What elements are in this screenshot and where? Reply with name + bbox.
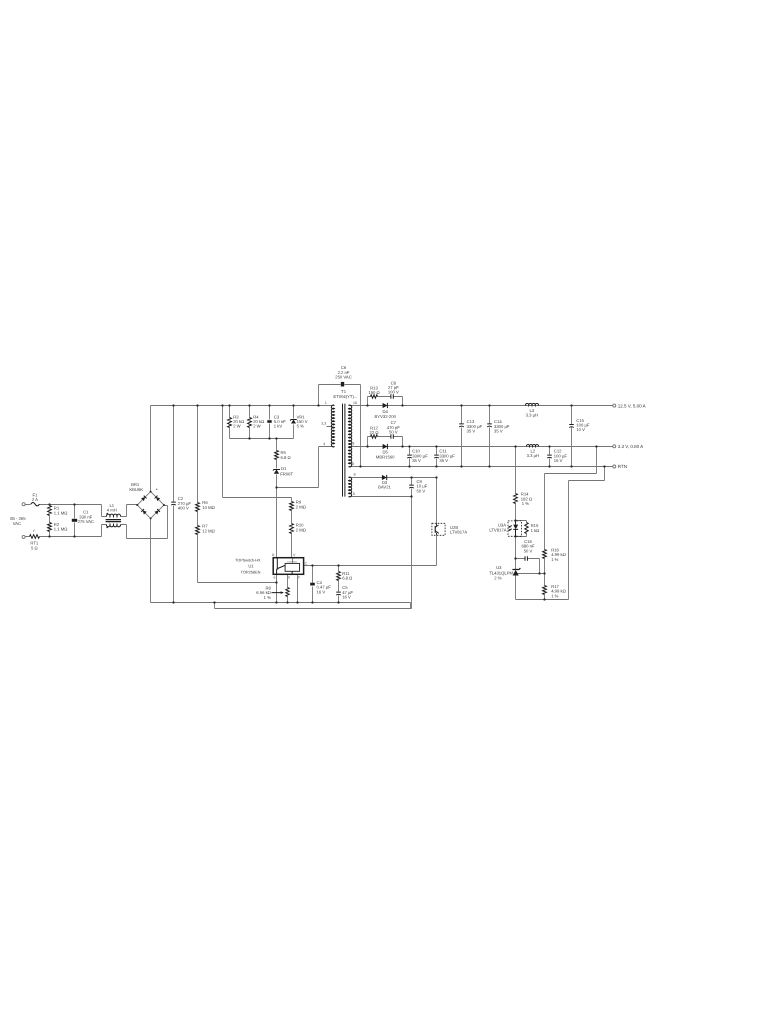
svg-text:16 V: 16 V xyxy=(317,589,326,594)
svg-text:TOP258EN: TOP258EN xyxy=(241,569,261,574)
svg-text:U1: U1 xyxy=(248,563,254,568)
svg-text:10 MΩ: 10 MΩ xyxy=(202,505,214,510)
svg-text:4: 4 xyxy=(323,442,325,446)
svg-text:U3: U3 xyxy=(496,565,502,570)
svg-text:1 %: 1 % xyxy=(551,557,558,562)
svg-text:KBU6K: KBU6K xyxy=(129,487,143,492)
svg-text:LTV817A: LTV817A xyxy=(489,528,506,533)
svg-text:1 %: 1 % xyxy=(522,501,529,506)
svg-text:35 V: 35 V xyxy=(439,458,448,463)
svg-text:35 V: 35 V xyxy=(494,429,503,434)
svg-text:50 V: 50 V xyxy=(417,488,426,493)
svg-text:5 %: 5 % xyxy=(297,424,304,429)
svg-text:1 kΩ: 1 kΩ xyxy=(531,528,540,533)
svg-text:ET004(YT)...: ET004(YT)... xyxy=(333,394,357,399)
svg-text:6.8 Ω: 6.8 Ω xyxy=(281,455,291,460)
svg-text:3.3 µH: 3.3 µH xyxy=(527,453,539,458)
svg-text:3.3 V, 0.80 A: 3.3 V, 0.80 A xyxy=(618,444,643,449)
svg-text:2,3: 2,3 xyxy=(321,421,326,425)
svg-text:MBR1560: MBR1560 xyxy=(376,454,395,459)
svg-text:275 VAC: 275 VAC xyxy=(78,519,94,524)
svg-text:6.8 Ω: 6.8 Ω xyxy=(342,576,352,581)
svg-text:1 %: 1 % xyxy=(264,595,271,600)
svg-text:5 Ω: 5 Ω xyxy=(31,545,38,550)
svg-text:BYV32-200: BYV32-200 xyxy=(374,414,396,419)
svg-text:2 %: 2 % xyxy=(494,575,501,580)
svg-text:1.1 MΩ: 1.1 MΩ xyxy=(54,510,68,515)
svg-text:5: 5 xyxy=(353,492,355,496)
svg-text:35 V: 35 V xyxy=(467,429,476,434)
svg-text:VAC: VAC xyxy=(13,521,21,526)
svg-text:150 Ω: 150 Ω xyxy=(368,390,379,395)
svg-text:16 V: 16 V xyxy=(342,595,351,600)
svg-text:250 VAC: 250 VAC xyxy=(335,375,351,380)
svg-text:50 V: 50 V xyxy=(389,429,398,434)
svg-text:3.3 µH: 3.3 µH xyxy=(526,412,538,417)
svg-text:1.1 MΩ: 1.1 MΩ xyxy=(54,527,68,532)
svg-text:50 V: 50 V xyxy=(524,548,533,553)
svg-text:1: 1 xyxy=(325,401,327,405)
svg-text:400 V: 400 V xyxy=(178,506,189,511)
svg-text:2 MΩ: 2 MΩ xyxy=(296,504,306,509)
svg-text:10: 10 xyxy=(353,401,357,405)
svg-text:1 %: 1 % xyxy=(551,593,558,598)
svg-text:2 W: 2 W xyxy=(233,424,240,429)
svg-text:LTV817A: LTV817A xyxy=(450,530,467,535)
svg-text:9: 9 xyxy=(352,462,354,466)
svg-text:BAV21: BAV21 xyxy=(378,485,391,490)
svg-text:2 A: 2 A xyxy=(32,497,38,502)
svg-text:12.5 V, 5.00 A: 12.5 V, 5.00 A xyxy=(618,403,646,408)
svg-text:FR06T: FR06T xyxy=(280,471,293,476)
svg-text:8: 8 xyxy=(352,442,354,446)
svg-text:2 W: 2 W xyxy=(253,424,260,429)
svg-text:35 V: 35 V xyxy=(412,458,421,463)
svg-text:CONTROL: CONTROL xyxy=(287,561,298,564)
svg-text:4 mH: 4 mH xyxy=(107,508,117,513)
svg-text:10 V: 10 V xyxy=(576,427,585,432)
svg-text:6: 6 xyxy=(354,473,356,477)
svg-text:2 MΩ: 2 MΩ xyxy=(296,527,306,532)
svg-text:12 MΩ: 12 MΩ xyxy=(202,528,214,533)
svg-text:1 kV: 1 kV xyxy=(274,424,283,429)
svg-text:100 V: 100 V xyxy=(388,390,399,395)
svg-text:16 V: 16 V xyxy=(554,458,563,463)
svg-text:TOPSwitch-HX: TOPSwitch-HX xyxy=(235,559,261,563)
svg-text:22 Ω: 22 Ω xyxy=(370,430,379,435)
svg-text:F: F xyxy=(298,576,300,580)
svg-text:RTN: RTN xyxy=(618,464,627,469)
